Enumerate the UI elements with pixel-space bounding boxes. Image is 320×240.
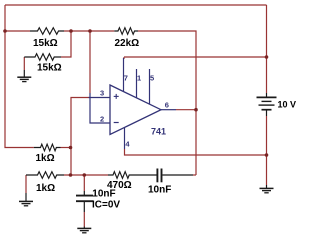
junction node C — [69, 173, 73, 177]
junction node A2 — [69, 29, 73, 33]
wire R2 to node — [61, 31, 71, 57]
svg-text:IC=0V: IC=0V — [92, 200, 120, 211]
svg-text:2: 2 — [100, 115, 104, 124]
junction node A1 — [3, 29, 7, 33]
wire row147 left — [61, 147, 71, 149]
wire noninverting input — [71, 98, 89, 176]
svg-text:10 V: 10 V — [278, 100, 297, 110]
junction node VPLUS — [265, 55, 269, 59]
wire inverting input — [89, 31, 91, 93]
resistor R2 15kOhm — [24, 54, 61, 61]
svg-text:22kΩ: 22kΩ — [115, 38, 140, 49]
resistor R3 22kOhm — [114, 28, 138, 35]
wire cap2 to feedback — [193, 174, 196, 176]
svg-text:10nF: 10nF — [92, 189, 115, 200]
svg-text:1kΩ: 1kΩ — [36, 183, 55, 194]
svg-text:1kΩ: 1kΩ — [36, 153, 55, 164]
op-amp pin7 lead — [123, 58, 125, 92]
svg-text:3: 3 — [100, 89, 104, 98]
wire R4 ground lead — [25, 175, 27, 193]
op-amp output lead — [161, 109, 176, 111]
svg-text:10nF: 10nF — [148, 185, 171, 196]
op-amp pin1 lead — [136, 69, 138, 98]
ground G4 — [260, 185, 274, 193]
wire feedback top — [138, 31, 196, 175]
wire cap1 to ground — [83, 212, 85, 227]
wire V+ pin7 stub — [123, 57, 125, 59]
resistor R4 1kOhm row147 — [34, 144, 61, 151]
battery V1 — [257, 93, 277, 116]
wire left rail — [5, 5, 34, 148]
junction node VMINUS — [265, 153, 269, 157]
op-amp U1 741 triangle — [110, 85, 161, 135]
capacitor C2 10nF — [135, 169, 193, 183]
svg-text:6: 6 — [165, 101, 169, 110]
op-amp pin3 lead — [89, 97, 110, 99]
wire pin4 to Vminus row — [125, 149, 267, 155]
svg-text:15kΩ: 15kΩ — [37, 63, 62, 74]
wire top rail — [5, 4, 267, 6]
junction node B — [69, 146, 73, 150]
wire V+ rail — [124, 56, 267, 58]
svg-text:7: 7 — [124, 73, 128, 82]
wire row175 mid — [64, 174, 108, 176]
resistor R1 15kOhm — [30, 28, 64, 35]
wire R5 ground lead — [23, 57, 25, 70]
op-amp pin4 lead — [124, 127, 126, 149]
op-amp plus sign — [114, 94, 119, 99]
resistor R6 470Ohm — [108, 172, 135, 179]
ground G1 — [17, 70, 31, 82]
wire node row y31 left — [5, 30, 30, 32]
op-amp pin5 lead — [149, 69, 151, 104]
wire cap1 top lead — [83, 175, 85, 191]
wire battery top drop — [266, 5, 268, 93]
svg-text:15kΩ: 15kΩ — [33, 38, 58, 49]
svg-text:741: 741 — [151, 126, 166, 136]
op-amp minus sign — [114, 122, 119, 124]
resistor R5 1kOhm row175 — [26, 172, 64, 179]
wire output — [176, 109, 196, 111]
op-amp pin2 lead — [90, 93, 110, 123]
ground G2 — [19, 193, 33, 206]
capacitor C1 10nF — [76, 191, 93, 212]
svg-text:1: 1 — [137, 73, 141, 82]
wire node row y31 mid — [64, 30, 114, 32]
junction node OUT — [194, 108, 198, 112]
junction node A3 — [88, 29, 92, 33]
svg-text:5: 5 — [150, 73, 154, 82]
ground G3 — [77, 227, 91, 233]
wire battery bottom — [266, 116, 268, 185]
junction node D — [83, 173, 87, 177]
